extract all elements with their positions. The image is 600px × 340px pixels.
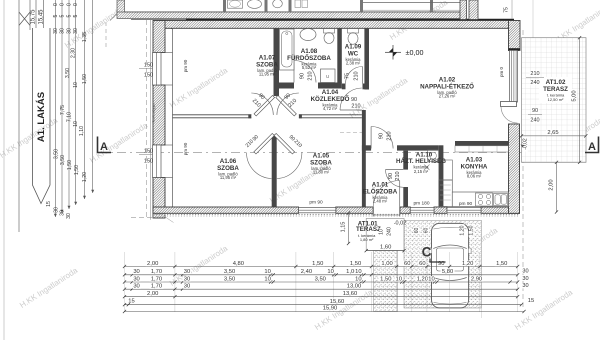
section marker A left xyxy=(98,137,112,153)
banner A1. LAKAS xyxy=(33,28,51,204)
svg-text:1,50: 1,50 xyxy=(74,165,80,175)
wc toilet xyxy=(348,29,359,34)
svg-text:3,50: 3,50 xyxy=(65,68,71,78)
right wall lower segment xyxy=(509,124,520,213)
svg-text:7,75: 7,75 xyxy=(60,105,66,115)
svg-text:1,50: 1,50 xyxy=(82,74,88,84)
svg-text:pm 180: pm 180 xyxy=(414,201,430,207)
svg-text:30: 30 xyxy=(66,213,72,219)
upper unit fixtures right xyxy=(295,0,301,8)
svg-text:1,10: 1,10 xyxy=(79,126,85,136)
svg-text:90: 90 xyxy=(300,73,306,79)
svg-text:10: 10 xyxy=(428,276,434,282)
svg-text:90: 90 xyxy=(351,97,357,103)
svg-text:A1.09: A1.09 xyxy=(345,44,362,51)
svg-text:15,60: 15,60 xyxy=(330,299,345,305)
svg-text:2,00: 2,00 xyxy=(147,261,158,267)
left strip dim lines xyxy=(54,0,56,217)
svg-text:210: 210 xyxy=(395,171,401,180)
svg-text:75: 75 xyxy=(504,7,510,13)
terrace door leaf xyxy=(501,102,517,107)
hazt drain xyxy=(424,165,430,171)
right wall step-down stub xyxy=(509,21,521,51)
svg-text:240: 240 xyxy=(387,227,393,236)
bottom wall speckle strip xyxy=(153,213,520,215)
svg-text:1,50: 1,50 xyxy=(350,261,361,267)
left strip page edge xyxy=(3,0,5,340)
svg-text:3,50: 3,50 xyxy=(224,269,235,275)
svg-text:1,20: 1,20 xyxy=(417,276,428,282)
svg-text:30: 30 xyxy=(53,28,59,34)
svg-text:2,00: 2,00 xyxy=(549,179,555,190)
svg-text:1,20: 1,20 xyxy=(462,261,473,267)
level marker -0,02 terrace (rotated) xyxy=(523,137,528,152)
stippled walkway strip xyxy=(374,251,398,312)
svg-text:90: 90 xyxy=(379,133,385,139)
svg-text:1,70: 1,70 xyxy=(151,284,162,290)
svg-text:4,80: 4,80 xyxy=(233,261,244,267)
svg-text:4,72 m²: 4,72 m² xyxy=(323,106,338,111)
svg-text:A: A xyxy=(100,141,108,153)
svg-text:1,70: 1,70 xyxy=(151,276,162,282)
svg-text:210: 210 xyxy=(530,71,539,77)
stove xyxy=(476,193,493,206)
door A1.07 xyxy=(254,95,275,116)
svg-text:A1. LAKÁS: A1. LAKÁS xyxy=(36,92,47,142)
right wall door labels 90/240 xyxy=(531,108,538,113)
svg-text:90: 90 xyxy=(532,108,538,114)
right wall window 210/240 xyxy=(510,50,518,102)
bottom wall window A1.05 xyxy=(299,208,336,213)
svg-text:10: 10 xyxy=(327,269,333,275)
upper unit bathtub xyxy=(228,0,243,8)
svg-text:5,00: 5,00 xyxy=(572,90,578,101)
bottom exterior wall segments xyxy=(153,207,299,213)
wall A1.06 / A1.05 xyxy=(272,135,277,207)
eloszoba north wall stub xyxy=(362,145,371,150)
svg-text:15: 15 xyxy=(528,298,534,304)
svg-text:A1.08: A1.08 xyxy=(301,48,318,55)
thin divider wall kozlekedo / A1.05 xyxy=(299,114,362,116)
svg-text:150: 150 xyxy=(144,63,153,69)
terrace dim extension xyxy=(532,0,534,38)
svg-text:1,20: 1,20 xyxy=(82,172,88,182)
porch dim 1,60 xyxy=(366,250,404,252)
svg-text:0: 0 xyxy=(60,3,66,6)
svg-text:2,48 m²: 2,48 m² xyxy=(373,199,388,204)
left wall window 2 (150) xyxy=(153,145,162,178)
wall wc east xyxy=(364,28,369,90)
svg-text:C: C xyxy=(422,245,432,260)
terrace length dim 5,00 xyxy=(579,38,581,163)
svg-text:150: 150 xyxy=(144,149,153,155)
washbasin bathroom xyxy=(300,29,316,41)
porch dim 1,15 xyxy=(348,213,350,244)
svg-text:15: 15 xyxy=(46,201,52,207)
svg-text:5: 5 xyxy=(73,14,79,17)
svg-text:90: 90 xyxy=(388,173,394,179)
svg-text:30: 30 xyxy=(133,276,139,282)
svg-text:8,06 m²: 8,06 m² xyxy=(467,174,482,179)
svg-text:210: 210 xyxy=(351,104,360,110)
svg-text:±0,00: ±0,00 xyxy=(406,48,424,57)
dim row 6 xyxy=(125,304,522,306)
svg-text:pm 0: pm 0 xyxy=(499,67,504,78)
svg-text:1,15: 1,15 xyxy=(341,222,347,233)
washing machine xyxy=(321,69,336,83)
upper unit washbasin xyxy=(248,0,262,8)
svg-text:3,50: 3,50 xyxy=(315,276,326,282)
svg-text:-0,02: -0,02 xyxy=(523,138,529,150)
door eloszoba/nappali xyxy=(370,127,372,149)
level marker +-0,00 xyxy=(389,48,393,52)
svg-text:15,90: 15,90 xyxy=(323,306,338,312)
svg-text:2,65: 2,65 xyxy=(547,130,558,136)
svg-text:5,80: 5,80 xyxy=(442,269,453,275)
svg-text:15,45: 15,45 xyxy=(39,9,45,25)
dim row 3 xyxy=(125,281,518,283)
svg-text:pm 90: pm 90 xyxy=(183,142,188,155)
svg-text:30: 30 xyxy=(522,268,528,274)
svg-text:2,90: 2,90 xyxy=(471,276,482,282)
svg-text:kavicságya: kavicságya xyxy=(152,103,156,123)
svg-text:0: 0 xyxy=(67,3,73,6)
door A1.05 upper arc xyxy=(276,95,297,116)
door wc xyxy=(362,67,364,84)
kitchen sink xyxy=(494,194,508,206)
terrace width dim 2,65 xyxy=(522,135,586,137)
svg-text:30: 30 xyxy=(73,28,79,34)
upper unit terrace slab xyxy=(363,2,460,4)
svg-text:pm 90: pm 90 xyxy=(309,199,323,205)
svg-text:3,50: 3,50 xyxy=(60,155,66,165)
svg-text:2,00: 2,00 xyxy=(147,291,158,297)
right exterior wall upper segment xyxy=(509,49,519,51)
kitchen upper cabinets xyxy=(455,146,509,152)
dim 2,00 right xyxy=(556,162,558,212)
svg-text:30: 30 xyxy=(60,210,66,216)
thin divider wall A1.07 / A1.06 xyxy=(173,114,252,116)
svg-text:0: 0 xyxy=(53,3,59,6)
porch AT1.01 TERASZ xyxy=(366,219,404,251)
kitchen counter xyxy=(452,192,508,207)
svg-text:30: 30 xyxy=(67,28,73,34)
wc south wall xyxy=(342,84,346,90)
hazt east wall xyxy=(439,145,444,207)
svg-text:5: 5 xyxy=(67,14,73,17)
door A1.06 xyxy=(254,133,275,154)
svg-text:10: 10 xyxy=(379,229,385,235)
svg-text:30: 30 xyxy=(60,28,66,34)
svg-text:60: 60 xyxy=(423,228,429,234)
svg-text:13,60: 13,60 xyxy=(343,291,358,297)
section marker A right xyxy=(585,137,599,153)
entrance door opening xyxy=(372,207,374,217)
bathtub xyxy=(280,29,295,70)
dim row 7 xyxy=(125,311,525,313)
svg-text:13,00: 13,00 xyxy=(347,283,362,289)
svg-text:11,95 m²: 11,95 m² xyxy=(259,72,276,77)
svg-text:AT1.02: AT1.02 xyxy=(546,79,566,86)
svg-text:30: 30 xyxy=(184,284,190,290)
svg-text:150: 150 xyxy=(144,73,153,79)
svg-text:210: 210 xyxy=(308,71,314,80)
svg-text:3,50: 3,50 xyxy=(54,149,60,159)
svg-text:30: 30 xyxy=(184,269,190,275)
svg-text:1,00: 1,00 xyxy=(381,261,392,267)
roof overhang dashed outline xyxy=(146,20,148,218)
upper unit SW corner xyxy=(117,0,125,14)
terrace AT1.02 TERASZ label xyxy=(539,77,572,103)
svg-text:30: 30 xyxy=(184,276,190,282)
door nappali/kozlekedo xyxy=(340,109,362,111)
svg-text:5,52 m²: 5,52 m² xyxy=(302,65,317,70)
svg-text:pm 90: pm 90 xyxy=(459,201,473,207)
car top view xyxy=(429,223,471,308)
svg-text:5: 5 xyxy=(60,14,66,17)
svg-text:1,50: 1,50 xyxy=(469,225,475,235)
top exterior wall xyxy=(160,21,514,29)
svg-text:u: u xyxy=(326,74,329,80)
door eloszoba/hazt xyxy=(386,169,404,171)
svg-text:2,40: 2,40 xyxy=(301,269,312,275)
svg-text:240: 240 xyxy=(530,80,539,86)
svg-text:60: 60 xyxy=(414,228,420,234)
svg-text:30: 30 xyxy=(133,284,139,290)
svg-text:60: 60 xyxy=(419,261,425,267)
hazt north wall xyxy=(397,145,439,150)
svg-text:10: 10 xyxy=(73,82,79,88)
svg-text:75: 75 xyxy=(345,73,351,79)
svg-text:2,15 m²: 2,15 m² xyxy=(414,169,429,174)
dim row 5 xyxy=(125,296,175,298)
porch dims 10/240 rotated xyxy=(379,228,384,235)
door bathroom xyxy=(293,61,295,83)
svg-text:30: 30 xyxy=(522,283,528,289)
svg-text:11,95 m²: 11,95 m² xyxy=(220,175,237,180)
upper unit wall band xyxy=(117,12,460,19)
svg-text:27,26 m²: 27,26 m² xyxy=(439,94,456,99)
svg-text:10: 10 xyxy=(395,276,401,282)
terrace AT1.02 paving grid xyxy=(522,38,587,163)
dim row 2 xyxy=(125,274,518,276)
svg-text:1,80 m²: 1,80 m² xyxy=(360,237,374,242)
svg-text:5: 5 xyxy=(53,14,59,17)
svg-text:7,10: 7,10 xyxy=(67,112,73,122)
bottom wall window kitchen xyxy=(447,208,481,213)
bathroom south wall xyxy=(279,83,294,89)
svg-text:11,80 m²: 11,80 m² xyxy=(313,170,330,175)
svg-text:210: 210 xyxy=(354,71,360,80)
wc bathroom xyxy=(324,29,335,34)
svg-text:10: 10 xyxy=(355,269,361,275)
svg-text:A1.05: A1.05 xyxy=(313,153,330,160)
wall nappali west xyxy=(362,110,366,207)
wall eloszoba / hazt xyxy=(403,151,408,170)
svg-text:1,20: 1,20 xyxy=(459,225,465,235)
svg-text:3,50: 3,50 xyxy=(224,276,235,282)
svg-text:1,50: 1,50 xyxy=(380,276,391,282)
svg-text:10: 10 xyxy=(355,276,361,282)
left wall window 1 (150) xyxy=(153,53,162,86)
kitchen north wall xyxy=(455,141,509,146)
left strip X cross xyxy=(19,12,30,25)
svg-text:240: 240 xyxy=(530,118,539,124)
svg-text:A1.07: A1.07 xyxy=(259,55,276,62)
bottom dim extension lines xyxy=(124,252,126,312)
bottom wall window pm180 xyxy=(410,208,434,213)
svg-text:A1.03: A1.03 xyxy=(466,157,483,164)
section line A-A xyxy=(98,152,597,154)
left strip line 1 xyxy=(18,0,20,232)
svg-text:1,50: 1,50 xyxy=(312,261,323,267)
svg-text:210: 210 xyxy=(387,131,393,140)
svg-text:60: 60 xyxy=(404,261,410,267)
svg-text:A1.01: A1.01 xyxy=(372,182,389,189)
svg-text:15,75: 15,75 xyxy=(31,9,37,25)
upper unit interior walls xyxy=(223,0,226,12)
svg-text:15: 15 xyxy=(128,299,134,305)
kitchen tall cabinet + fridge xyxy=(439,160,453,180)
upper terrace wall xyxy=(460,0,467,20)
svg-text:A1.06: A1.06 xyxy=(220,158,237,165)
right wall window labels 210/240 xyxy=(530,71,540,76)
party wall dark line xyxy=(131,19,186,21)
door A1.05 xyxy=(274,133,295,154)
dim row 1 xyxy=(125,266,518,268)
svg-text:30: 30 xyxy=(133,269,139,275)
svg-text:12,50 m²: 12,50 m² xyxy=(548,97,564,102)
stippled driveway xyxy=(404,221,482,309)
svg-text:30: 30 xyxy=(522,276,528,282)
svg-text:A1.02: A1.02 xyxy=(439,77,456,84)
svg-text:A: A xyxy=(588,141,596,153)
etkezo boundary dashes xyxy=(340,132,365,134)
svg-text:0: 0 xyxy=(73,3,79,6)
svg-text:1,50: 1,50 xyxy=(496,261,507,267)
svg-text:10: 10 xyxy=(264,276,270,282)
driveway top dims xyxy=(414,227,419,234)
upper unit east wall xyxy=(469,0,478,20)
svg-text:1,50: 1,50 xyxy=(67,160,73,170)
wall A1.07 / bathroom xyxy=(274,28,280,96)
hazt washer xyxy=(428,150,439,162)
svg-text:1,60: 1,60 xyxy=(380,245,391,251)
left strip lines 15,75 / 15,45 xyxy=(35,0,37,28)
svg-text:A1.04: A1.04 xyxy=(322,89,339,96)
svg-text:2,38 m²: 2,38 m² xyxy=(346,61,361,66)
wall bathroom / wc xyxy=(337,28,342,83)
svg-text:1,35: 1,35 xyxy=(82,32,88,42)
corner bevels xyxy=(153,21,173,29)
svg-text:2,30: 2,30 xyxy=(71,48,77,58)
dim row 4 xyxy=(125,288,183,290)
svg-text:10: 10 xyxy=(264,269,270,275)
left exterior wall xyxy=(150,20,152,220)
upper unit WC xyxy=(273,0,283,8)
svg-text:pm 90: pm 90 xyxy=(183,59,188,72)
svg-text:1,70: 1,70 xyxy=(151,269,162,275)
entrance door xyxy=(399,181,401,208)
svg-text:150: 150 xyxy=(144,159,153,165)
